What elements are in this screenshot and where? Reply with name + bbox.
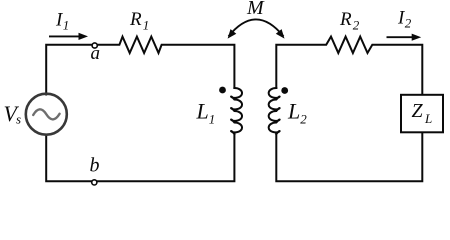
svg-text:Z: Z [412,100,424,122]
svg-text:2: 2 [300,112,307,127]
svg-text:1: 1 [209,112,216,127]
svg-text:1: 1 [143,18,150,33]
svg-text:M: M [246,0,265,19]
svg-text:a: a [91,43,101,64]
svg-text:1: 1 [63,17,70,32]
svg-text:2: 2 [405,16,412,31]
svg-text:s: s [16,111,21,126]
svg-text:2: 2 [353,18,360,33]
svg-text:L: L [424,111,432,126]
svg-text:R: R [129,9,142,30]
svg-text:L: L [287,99,300,124]
svg-text:b: b [90,154,100,176]
svg-text:L: L [196,99,209,124]
svg-text:R: R [339,9,352,30]
